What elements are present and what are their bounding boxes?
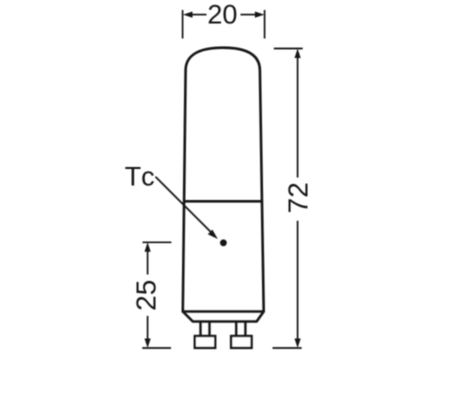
base height dimension 25: up arrow bbox=[145, 242, 151, 252]
height dimension 72: bottom tick bbox=[273, 347, 302, 349]
base height dimension 25: dimension line bbox=[147, 249, 149, 341]
svg-text:25: 25 bbox=[131, 280, 162, 311]
thermal measurement point dot bbox=[220, 239, 227, 246]
Tc leader arrowhead bbox=[208, 230, 218, 239]
width dimension 20: left arrow bbox=[183, 12, 193, 18]
height dimension 72: dimension line bbox=[297, 55, 299, 341]
lamp bulb body outline bbox=[183, 48, 264, 312]
svg-text:20: 20 bbox=[207, 0, 237, 29]
left pin foot bbox=[195, 336, 215, 348]
left pin stem bbox=[201, 322, 210, 337]
base height dimension 25: down arrow bbox=[145, 339, 151, 349]
junction line between glass and base bbox=[184, 200, 262, 203]
base height dimension 25: bottom tick bbox=[142, 347, 171, 349]
height dimension 72: up arrow bbox=[295, 49, 301, 59]
svg-text:72: 72 bbox=[283, 182, 314, 213]
width dimension 20: right arrow bbox=[255, 12, 265, 18]
base height dimension 25: top tick bbox=[143, 241, 172, 243]
width dimension 20: right extension line bbox=[264, 10, 266, 39]
height dimension 72: down arrow bbox=[295, 339, 301, 349]
right pin stem bbox=[236, 322, 245, 337]
width dimension 20: left extension line bbox=[182, 10, 184, 39]
Tc leader line bbox=[156, 177, 211, 232]
height dimension 72: top tick bbox=[274, 48, 303, 50]
svg-text:Tc: Tc bbox=[125, 161, 155, 191]
right pin foot bbox=[231, 336, 252, 348]
lamp base trapezoid bbox=[183, 312, 264, 322]
